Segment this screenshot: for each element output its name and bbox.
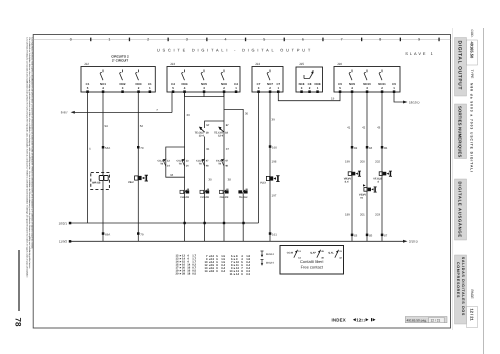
J12 switch contacts bbox=[100, 70, 139, 81]
bus 10/2/1 bbox=[70, 222, 259, 224]
svg-text:►28: ►28 bbox=[179, 273, 185, 276]
svg-text:2° CIRCUIT: 2° CIRCUIT bbox=[112, 59, 128, 63]
connector J13 bbox=[167, 67, 240, 93]
svg-text:d.ri: d.ri bbox=[345, 181, 349, 184]
svg-text:201: 201 bbox=[360, 213, 365, 217]
svg-text:52: 52 bbox=[140, 124, 144, 128]
J16 switch contacts bbox=[349, 70, 382, 81]
svg-text:CV2.PR: CV2.PR bbox=[200, 196, 209, 199]
svg-text:SLAVE 1: SLAVE 1 bbox=[405, 51, 435, 56]
bus left terminals bbox=[69, 222, 72, 225]
svg-text:79: 79 bbox=[140, 146, 144, 150]
svg-text:7: 7 bbox=[341, 37, 343, 41]
svg-text:54A: 54A bbox=[105, 146, 110, 150]
svg-text:12 / 21: 12 / 21 bbox=[469, 309, 474, 322]
svg-text:1: 1 bbox=[108, 37, 110, 41]
svg-text:42: 42 bbox=[362, 125, 366, 129]
svg-text:8-9/7: 8-9/7 bbox=[61, 111, 68, 115]
legend group 1 bbox=[176, 254, 197, 275]
wire NO6 with split bbox=[223, 92, 225, 241]
svg-text:82: 82 bbox=[354, 146, 358, 150]
pressure switch CU2.PR (2) bbox=[219, 188, 229, 199]
valve VR3/V bbox=[344, 171, 361, 184]
valve VB.2 bbox=[128, 175, 148, 184]
wire NO4 (33) bbox=[184, 92, 186, 241]
svg-text:USCITE DIGITALI - DIGITAL OUTP: USCITE DIGITALI - DIGITAL OUTPUT bbox=[157, 48, 313, 53]
valve VF.CU2 bbox=[373, 171, 392, 184]
svg-text:86: 86 bbox=[384, 146, 388, 150]
ruler bbox=[33, 37, 450, 41]
wire 8-9/7 bbox=[73, 112, 173, 114]
svg-text:COMPRESORES: COMPRESORES bbox=[456, 262, 460, 298]
aux contact CU.2 (13-14) bbox=[158, 158, 171, 167]
svg-text:0: 0 bbox=[70, 37, 72, 41]
svg-text:8: 8 bbox=[379, 37, 381, 41]
svg-text:CU2.PR: CU2.PR bbox=[180, 196, 189, 199]
stub NO5 bbox=[203, 92, 205, 96]
svg-text:160: 160 bbox=[272, 145, 277, 149]
splice squares with labels bbox=[102, 145, 388, 237]
svg-text:19 12 4: 19 12 4 bbox=[266, 253, 274, 256]
thermal switch TE.CV2 bbox=[214, 124, 229, 138]
branch loop net 34 bbox=[166, 147, 185, 177]
svg-text:18: 18 bbox=[187, 273, 190, 276]
svg-text:Free contact: Free contact bbox=[301, 265, 324, 270]
valve VU.3 bbox=[260, 176, 280, 185]
svg-text:INDEX: INDEX bbox=[332, 318, 346, 323]
svg-text:Q.AL: Q.AL bbox=[328, 252, 334, 255]
svg-text:12-4: 12-4 bbox=[199, 135, 205, 138]
svg-text:CO.M: CO.M bbox=[287, 252, 293, 255]
svg-text:200: 200 bbox=[360, 160, 365, 164]
svg-text:30: 30 bbox=[245, 112, 249, 116]
aux contact CU.2 (47-48) bbox=[196, 158, 209, 167]
svg-text:9A: 9A bbox=[105, 124, 109, 128]
thermal switch TE.CU2 bbox=[195, 124, 210, 138]
svg-text:6: 6 bbox=[302, 37, 304, 41]
svg-text:30: 30 bbox=[208, 178, 212, 182]
wire NO11 bbox=[381, 92, 383, 241]
probe symbol 1 bbox=[261, 251, 275, 257]
svg-text:36: 36 bbox=[206, 147, 210, 151]
drawing frame bbox=[33, 35, 450, 329]
pressure switch CU2.PR bbox=[180, 188, 190, 199]
svg-text:CU2.PR: CU2.PR bbox=[220, 196, 229, 199]
connector J14 bbox=[252, 67, 283, 93]
arrow 18/10 D bbox=[403, 101, 408, 104]
wire C4/5 to line 8-9/7 bbox=[171, 92, 173, 112]
svg-text:J14: J14 bbox=[255, 62, 260, 66]
wire C9/1 to arrow bbox=[394, 92, 405, 102]
svg-text:DIGITALE AUSGÄNGE: DIGITALE AUSGÄNGE bbox=[458, 182, 463, 238]
svg-text:83: 83 bbox=[354, 234, 358, 238]
svg-text:3: 3 bbox=[186, 37, 188, 41]
wire NO7 (39) bbox=[269, 92, 271, 241]
right sidebar bbox=[453, 28, 484, 354]
svg-text:VB.2: VB.2 bbox=[128, 181, 134, 184]
svg-text:41: 41 bbox=[347, 125, 351, 129]
svg-text:161: 161 bbox=[272, 232, 277, 236]
wire number labels bbox=[89, 97, 380, 217]
svg-text:N88 da 5003 a 7003 USCITE DIGI: N88 da 5003 a 7003 USCITE DIGITALI bbox=[470, 83, 474, 173]
svg-text:J13: J13 bbox=[170, 62, 175, 66]
svg-text:87: 87 bbox=[384, 234, 388, 238]
svg-text:0.4: 0.4 bbox=[221, 270, 225, 273]
svg-text:/21: /21 bbox=[360, 319, 365, 323]
svg-text:10/2/1: 10/2/1 bbox=[59, 221, 68, 225]
pressure switch CV2.PR bbox=[200, 188, 210, 199]
wire NO9 bbox=[351, 92, 353, 241]
svg-text:37: 37 bbox=[226, 147, 230, 151]
svg-text:Q.AP: Q.AP bbox=[310, 252, 316, 255]
svg-text:12 / 21: 12 / 21 bbox=[431, 319, 441, 323]
svg-text:197: 197 bbox=[272, 194, 277, 198]
wire NO6 branch net 30 bbox=[224, 109, 243, 241]
svg-text:J12: J12 bbox=[84, 62, 89, 66]
svg-text:49165.50: 49165.50 bbox=[469, 42, 474, 59]
svg-text:IMP.CB: IMP.CB bbox=[92, 181, 101, 184]
svg-text:4: 4 bbox=[225, 37, 227, 41]
bus 11/9/2 bbox=[70, 240, 404, 242]
wire C7/1 link to C9/5 bbox=[278, 92, 340, 101]
svg-text:Contatti liberi: Contatti liberi bbox=[300, 259, 323, 264]
svg-text:SORTIES NUMERIQUES: SORTIES NUMERIQUES bbox=[458, 106, 463, 158]
svg-text:VU.3: VU.3 bbox=[260, 181, 266, 184]
svg-text:34: 34 bbox=[170, 173, 174, 177]
svg-text:78: 78 bbox=[14, 318, 23, 327]
connector J15 bbox=[296, 67, 323, 92]
svg-text:189: 189 bbox=[345, 213, 350, 217]
svg-text:0.5: 0.5 bbox=[192, 273, 196, 276]
svg-text:84: 84 bbox=[369, 146, 373, 150]
bus1 junction dots bbox=[183, 222, 244, 224]
wire NO3 (52) bbox=[137, 92, 139, 241]
thermal TE.CU2 bottom bbox=[238, 188, 248, 199]
arrow 2/10 D bbox=[403, 240, 408, 243]
svg-text:203: 203 bbox=[375, 213, 380, 217]
svg-text:202: 202 bbox=[375, 160, 380, 164]
valve VS3/V bbox=[359, 184, 377, 199]
connector J12 bbox=[81, 67, 155, 93]
arrow 8-9/7 bbox=[71, 111, 75, 114]
free contacts box bbox=[280, 246, 344, 275]
aux contact CV.2 (13-14) bbox=[176, 158, 189, 167]
bracket C4 commons bbox=[185, 93, 224, 97]
svg-text:TYPE: TYPE bbox=[470, 70, 474, 80]
connector J16 bbox=[334, 67, 400, 93]
wire C1/5 down-left bbox=[86, 92, 88, 223]
wire NO10 bbox=[366, 92, 368, 241]
svg-text:5: 5 bbox=[263, 37, 265, 41]
J13 switch contacts bbox=[182, 70, 225, 81]
svg-text:18/10 D: 18/10 D bbox=[409, 100, 420, 104]
svg-text:12-4: 12-4 bbox=[218, 135, 224, 138]
probe symbol 2 bbox=[261, 260, 275, 266]
svg-text:33: 33 bbox=[186, 113, 190, 117]
svg-text:49165.50 pag.: 49165.50 pag. bbox=[407, 319, 427, 323]
index row bbox=[332, 318, 376, 323]
svg-text:11/9/2: 11/9/2 bbox=[59, 240, 67, 244]
svg-text:9: 9 bbox=[418, 37, 420, 41]
page ref box bbox=[405, 317, 447, 323]
svg-text:198: 198 bbox=[272, 160, 277, 164]
svg-text:2/10 D: 2/10 D bbox=[409, 240, 419, 244]
wire C7/3 to bus1 bbox=[258, 92, 260, 223]
legend group 2 bbox=[205, 255, 226, 273]
svg-text:79: 79 bbox=[140, 232, 144, 236]
svg-text:0.3: 0.3 bbox=[246, 273, 250, 276]
wire NO1 (9A) bbox=[102, 92, 104, 241]
left disclaimer text columns bbox=[26, 38, 34, 278]
svg-text:43: 43 bbox=[377, 125, 381, 129]
svg-text:TE.CU2: TE.CU2 bbox=[239, 196, 248, 199]
legend group 3 bbox=[230, 255, 251, 276]
svg-text:J15: J15 bbox=[299, 62, 304, 66]
svg-text:69A: 69A bbox=[105, 232, 110, 236]
svg-text:199: 199 bbox=[345, 160, 350, 164]
svg-text:2: 2 bbox=[147, 37, 149, 41]
svg-text:COD.: COD. bbox=[470, 30, 474, 38]
svg-text:18 12 4: 18 12 4 bbox=[266, 261, 274, 264]
svg-text:39: 39 bbox=[272, 118, 276, 122]
J15 changeover contact bbox=[304, 70, 313, 79]
svg-text:38: 38 bbox=[228, 178, 232, 182]
J14 switch contact bbox=[267, 70, 270, 81]
svg-text:19: 19 bbox=[331, 97, 335, 101]
svg-text:◄18: ◄18 bbox=[208, 270, 214, 273]
svg-text:DIGITAL OUTPUT: DIGITAL OUTPUT bbox=[456, 41, 462, 91]
relay IMP.CB bbox=[91, 172, 110, 189]
svg-text:Los esquemas eléctricos están: Los esquemas eléctricos están sujetos a … bbox=[31, 38, 34, 249]
fold mark line bbox=[18, 250, 20, 311]
svg-text:J16: J16 bbox=[337, 62, 342, 66]
svg-text:►14: ►14 bbox=[233, 273, 239, 276]
svg-text:85: 85 bbox=[369, 234, 373, 238]
svg-text:PAGE: PAGE bbox=[470, 290, 474, 300]
svg-text:SALIDAS DIGITALES DOS: SALIDAS DIGITALES DOS bbox=[461, 257, 465, 316]
aux contact CV.2 (47-48) bbox=[216, 158, 229, 167]
